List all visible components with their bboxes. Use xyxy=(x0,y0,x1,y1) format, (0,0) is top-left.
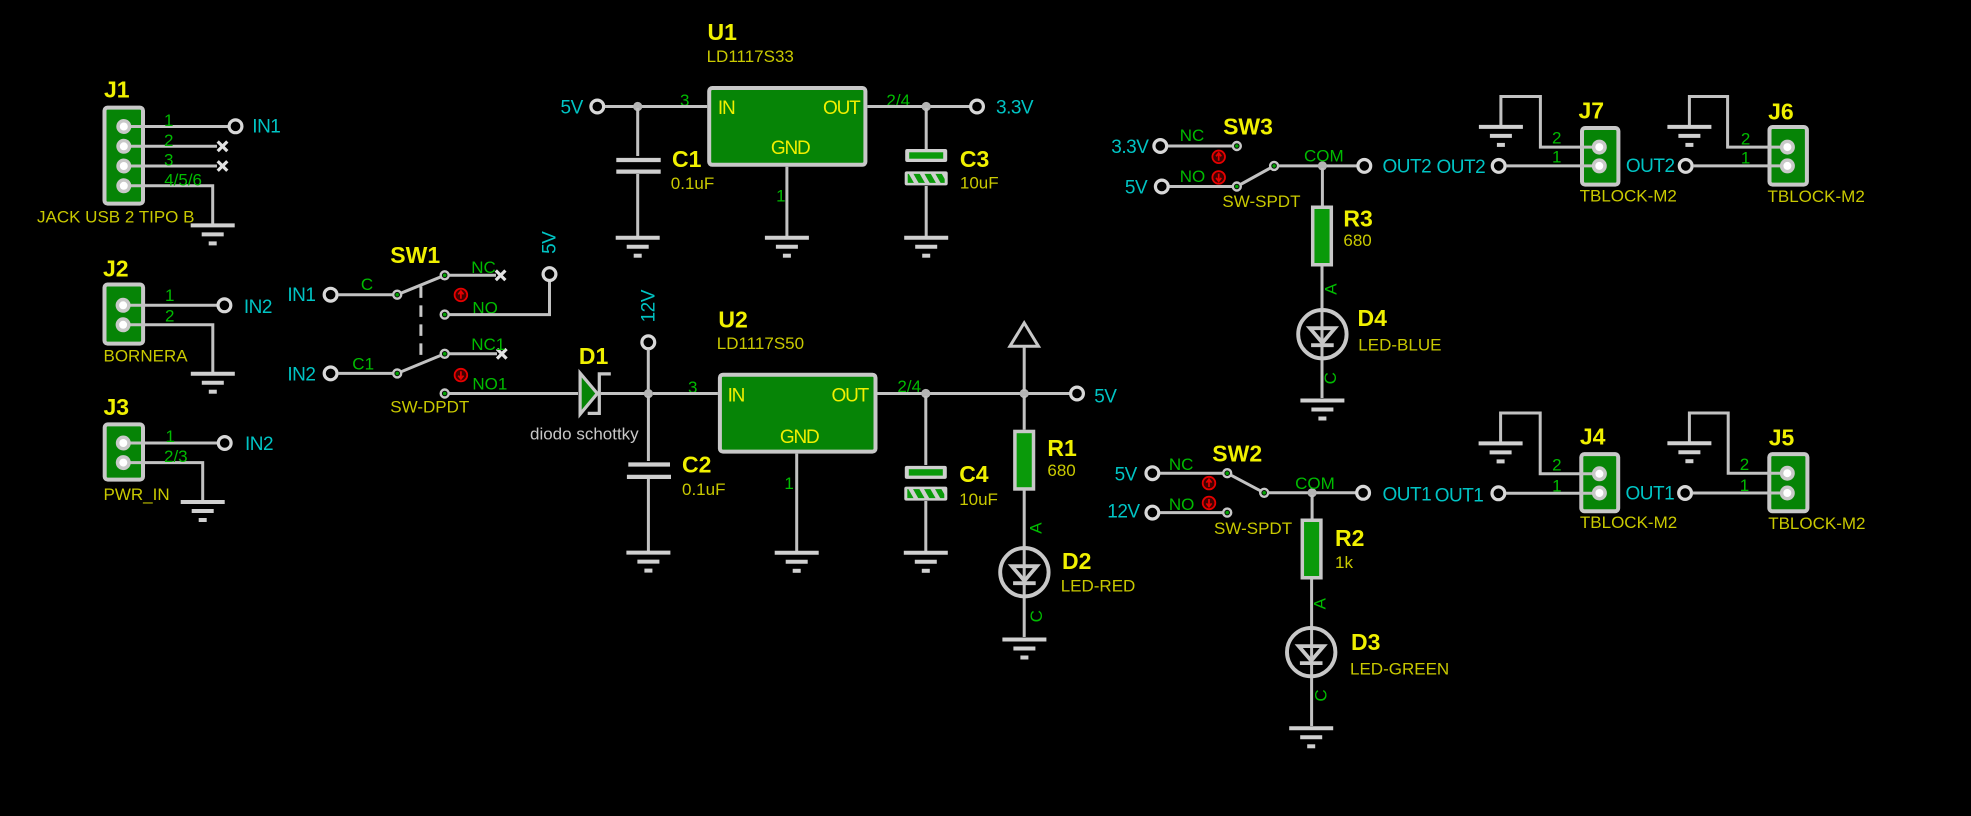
svg-text:NO1: NO1 xyxy=(472,374,507,393)
wire COM down to R3 xyxy=(1321,168,1324,206)
svg-text:SW-DPDT: SW-DPDT xyxy=(390,398,469,417)
svg-text:IN: IN xyxy=(718,98,735,119)
wire J3 pin 2/3 to ground xyxy=(123,463,202,500)
wire J1 pin 2 xyxy=(124,145,217,148)
svg-text:1: 1 xyxy=(776,186,785,205)
connector J7 body xyxy=(1582,128,1618,185)
capacitor C3 (polarised) xyxy=(905,149,947,162)
svg-text:GND: GND xyxy=(771,138,810,159)
svg-text:TBLOCK-M2: TBLOCK-M2 xyxy=(1768,514,1865,533)
wire power arrow down xyxy=(1023,346,1026,391)
svg-text:BORNERA: BORNERA xyxy=(104,347,189,366)
ground J6 xyxy=(1667,127,1711,145)
wire J7 pin 2 to ground xyxy=(1501,97,1599,148)
SW1 gang link (dashed) xyxy=(419,286,422,357)
resistor R2 xyxy=(1302,520,1321,578)
wire to C2 xyxy=(647,396,650,461)
node OUT2 terminal at J7 xyxy=(1492,160,1505,173)
wire to R1 xyxy=(1023,396,1026,430)
diode D1 (schottky) xyxy=(580,373,597,414)
svg-text:4/5/6: 4/5/6 xyxy=(164,171,202,190)
svg-text:COM: COM xyxy=(1304,147,1344,166)
svg-text:D1: D1 xyxy=(579,343,609,369)
svg-text:OUT1: OUT1 xyxy=(1435,486,1484,507)
svg-text:3.3V: 3.3V xyxy=(1111,137,1149,158)
svg-text:1: 1 xyxy=(166,427,175,446)
SW1 lever pole 1 xyxy=(397,275,445,294)
svg-text:J2: J2 xyxy=(103,255,129,281)
svg-text:IN2: IN2 xyxy=(287,365,315,386)
SW3 actuator up xyxy=(1212,151,1225,164)
svg-text:NC1: NC1 xyxy=(471,335,505,354)
svg-text:2: 2 xyxy=(1552,128,1561,147)
capacitor C1 xyxy=(616,158,660,162)
svg-text:TBLOCK-M2: TBLOCK-M2 xyxy=(1580,186,1677,205)
wire J3 pin 1 to node IN2 xyxy=(123,442,217,445)
ground J5 xyxy=(1667,443,1711,461)
svg-text:10uF: 10uF xyxy=(959,490,998,509)
svg-text:TBLOCK-M2: TBLOCK-M2 xyxy=(1768,187,1865,206)
no-connect SW1 NC xyxy=(496,271,506,281)
svg-text:NC: NC xyxy=(1169,455,1194,474)
svg-text:OUT: OUT xyxy=(832,385,870,406)
svg-text:1k: 1k xyxy=(1335,553,1353,572)
svg-text:NO: NO xyxy=(1180,167,1206,186)
wire OUT1 to J5 pin 1 xyxy=(1693,492,1788,495)
regulator U2 body xyxy=(720,375,876,452)
svg-text:C1: C1 xyxy=(352,355,374,374)
svg-text:GND: GND xyxy=(780,427,819,448)
svg-text:1: 1 xyxy=(1741,149,1750,168)
ground C4 xyxy=(904,553,948,571)
ground C3 xyxy=(904,238,948,256)
wire SW1 NC stub xyxy=(449,274,496,277)
wire OUT2 to J6 pin 1 xyxy=(1693,164,1787,167)
svg-text:C: C xyxy=(1321,372,1340,384)
svg-text:OUT2: OUT2 xyxy=(1383,157,1432,178)
svg-text:LED-BLUE: LED-BLUE xyxy=(1358,336,1441,355)
svg-text:C: C xyxy=(1312,689,1331,701)
svg-text:SW2: SW2 xyxy=(1212,441,1262,467)
wire 5V to SW2 NC xyxy=(1160,472,1223,475)
J7 pin pads xyxy=(1592,140,1607,155)
svg-text:J6: J6 xyxy=(1768,99,1794,125)
wire 3.3V to SW3 NC xyxy=(1168,145,1232,148)
wire to C1 xyxy=(636,108,639,156)
J5 pin pads xyxy=(1780,466,1795,481)
svg-text:A: A xyxy=(1311,597,1330,609)
connector J6 body xyxy=(1770,127,1807,185)
node IN2 at SW1 xyxy=(324,367,337,380)
node OUT1 terminal at J4 xyxy=(1492,487,1505,500)
wire C1 to ground xyxy=(636,174,639,236)
svg-text:IN1: IN1 xyxy=(252,117,280,138)
wire U1 OUT to node 3.3V xyxy=(867,105,969,108)
node 3.3V at SW3 xyxy=(1154,140,1167,153)
wire J1 pin 1 to node IN1 xyxy=(124,125,228,128)
junction COM at R3 xyxy=(1318,161,1327,170)
resistor R3 xyxy=(1313,207,1332,265)
node IN1 at SW1 xyxy=(324,288,337,301)
svg-text:D3: D3 xyxy=(1351,629,1380,655)
wire SW3 common to node OUT2 xyxy=(1278,164,1357,167)
svg-text:5V: 5V xyxy=(1125,178,1148,199)
SW1 actuator down xyxy=(455,369,468,382)
junction at C3 xyxy=(922,102,931,111)
svg-text:OUT: OUT xyxy=(823,98,861,119)
svg-text:5V: 5V xyxy=(1094,386,1117,407)
SW2 actuator down xyxy=(1203,497,1216,510)
svg-text:OUT2: OUT2 xyxy=(1437,157,1486,178)
svg-text:LD1117S50: LD1117S50 xyxy=(717,334,804,353)
svg-text:680: 680 xyxy=(1343,231,1371,250)
svg-text:12V: 12V xyxy=(638,289,659,322)
svg-text:J1: J1 xyxy=(104,77,130,103)
svg-text:2/3: 2/3 xyxy=(164,447,188,466)
wire R1 to D2 to ground xyxy=(1023,490,1026,637)
svg-text:C: C xyxy=(361,275,373,294)
wire J2 pin 2 to ground xyxy=(123,325,213,372)
connector J4 body xyxy=(1581,454,1618,511)
ground J3 xyxy=(181,502,225,520)
svg-text:SW-SPDT: SW-SPDT xyxy=(1222,192,1300,211)
wire R3 to D4 to ground xyxy=(1321,266,1324,398)
svg-text:LED-GREEN: LED-GREEN xyxy=(1350,660,1449,679)
node OUT2 terminal at SW3 xyxy=(1358,160,1371,173)
wire U2 GND pin to ground xyxy=(795,454,798,551)
junction at C1 xyxy=(633,102,642,111)
svg-text:IN1: IN1 xyxy=(287,285,315,306)
J6 pin pads xyxy=(1780,140,1795,155)
svg-text:5V: 5V xyxy=(540,231,561,254)
connector J1 body xyxy=(105,108,144,204)
svg-text:LD1117S33: LD1117S33 xyxy=(707,47,794,66)
svg-text:1: 1 xyxy=(1740,476,1749,495)
node OUT1 terminal at SW2 xyxy=(1357,486,1370,499)
svg-text:R3: R3 xyxy=(1343,206,1372,232)
svg-text:J5: J5 xyxy=(1769,424,1795,450)
junction U2 out at C4 xyxy=(921,389,930,398)
wire J5 pin 2 to ground xyxy=(1689,413,1787,473)
svg-text:SW-SPDT: SW-SPDT xyxy=(1214,519,1292,538)
wire 12V to SW2 NO xyxy=(1160,511,1223,514)
resistor R1 xyxy=(1015,431,1034,489)
svg-text:J7: J7 xyxy=(1579,98,1605,124)
svg-text:R1: R1 xyxy=(1047,435,1077,461)
junction 5V at R1 xyxy=(1020,389,1029,398)
svg-text:diodo schottky: diodo schottky xyxy=(530,425,639,444)
wire J1 pin 3 xyxy=(124,165,217,168)
ground D4 xyxy=(1300,401,1344,419)
wire SW1 NC1 stub xyxy=(449,352,497,355)
no-connect pin 3 xyxy=(218,161,228,171)
svg-text:A: A xyxy=(1027,522,1046,534)
svg-text:R2: R2 xyxy=(1335,525,1364,551)
svg-text:12V: 12V xyxy=(1107,502,1140,523)
LED D3 xyxy=(1287,628,1335,676)
svg-text:U1: U1 xyxy=(708,19,738,45)
SW3 lever xyxy=(1237,166,1274,187)
svg-text:SW3: SW3 xyxy=(1223,113,1273,139)
node OUT2 terminal at J6 xyxy=(1679,160,1692,173)
svg-text:2: 2 xyxy=(1552,456,1561,475)
svg-text:2: 2 xyxy=(164,131,173,150)
svg-text:C4: C4 xyxy=(959,461,989,487)
svg-text:LED-RED: LED-RED xyxy=(1061,577,1136,596)
svg-text:0.1uF: 0.1uF xyxy=(682,480,725,499)
wire 5V to SW3 NO xyxy=(1170,185,1233,188)
svg-text:J3: J3 xyxy=(104,394,130,420)
svg-text:OUT1: OUT1 xyxy=(1626,484,1675,505)
wire 12V node to U2 IN xyxy=(653,392,718,395)
node OUT1 terminal at J5 xyxy=(1679,487,1692,500)
svg-text:U2: U2 xyxy=(718,306,747,332)
wire J1 pin 4/5/6 to ground xyxy=(124,186,213,224)
svg-text:OUT1: OUT1 xyxy=(1383,484,1432,505)
svg-text:D4: D4 xyxy=(1358,305,1388,331)
regulator U1 body xyxy=(709,88,865,165)
wire SW2 common to node OUT1 xyxy=(1268,491,1356,494)
J4 pin pads xyxy=(1592,466,1607,481)
ground D2 xyxy=(1002,640,1046,658)
svg-text:3: 3 xyxy=(164,150,173,169)
ground U2 xyxy=(775,553,819,571)
J1 pin pads xyxy=(116,119,131,134)
svg-text:2: 2 xyxy=(1740,455,1749,474)
node IN2 terminal at J3 xyxy=(218,437,231,450)
svg-text:0.1uF: 0.1uF xyxy=(671,174,714,193)
svg-text:1: 1 xyxy=(165,286,174,305)
svg-text:1: 1 xyxy=(1552,477,1561,496)
J3 pin pads xyxy=(116,436,131,451)
ground J2 xyxy=(191,374,235,392)
node 5V at SW3 xyxy=(1155,180,1168,193)
svg-text:1: 1 xyxy=(784,474,793,493)
node 5V at SW2 xyxy=(1146,467,1159,480)
SW2 lever xyxy=(1227,473,1264,493)
node 12V terminal xyxy=(642,336,655,349)
svg-text:PWR_IN: PWR_IN xyxy=(104,485,170,504)
connector J2 body xyxy=(105,285,144,344)
svg-text:A: A xyxy=(1321,283,1340,295)
connector J5 body xyxy=(1769,454,1807,511)
wire 12V terminal down xyxy=(647,349,650,391)
no-connect pin 2 xyxy=(218,142,228,152)
wire 5V to U1 IN xyxy=(605,105,707,108)
svg-text:1: 1 xyxy=(164,111,173,130)
node 3.3V terminal xyxy=(971,100,984,113)
svg-text:J4: J4 xyxy=(1580,423,1606,449)
power arrow 5V xyxy=(1010,323,1039,346)
SW1 actuator up xyxy=(455,289,468,302)
LED D4 xyxy=(1298,310,1346,358)
wire U2 OUT to node 5V xyxy=(878,392,1071,395)
node IN1 terminal xyxy=(229,120,242,133)
wire SW1 NO to node 5V xyxy=(449,282,550,315)
svg-text:IN: IN xyxy=(728,385,745,406)
ground D3 xyxy=(1289,728,1333,746)
svg-text:5V: 5V xyxy=(1115,465,1138,486)
wire J6 pin 2 to ground xyxy=(1689,97,1787,148)
svg-text:COM: COM xyxy=(1295,474,1335,493)
node IN2 terminal xyxy=(218,299,231,312)
wire to C3 xyxy=(925,108,928,149)
svg-text:NC: NC xyxy=(471,258,496,277)
svg-text:680: 680 xyxy=(1047,461,1075,480)
wire D1 cathode to 12V node xyxy=(601,392,645,395)
junction COM at R2 xyxy=(1308,488,1317,497)
no-connect SW1 NC1 xyxy=(497,349,507,359)
node 5V terminal at U2 xyxy=(1071,387,1084,400)
wire OUT2 to J7 pin 1 xyxy=(1506,164,1599,167)
svg-text:C3: C3 xyxy=(960,146,989,172)
wire COM down to R2 xyxy=(1311,495,1314,519)
svg-text:C: C xyxy=(1027,610,1046,622)
ground C2 xyxy=(626,553,670,571)
svg-text:3.3V: 3.3V xyxy=(996,98,1034,119)
LED D2 xyxy=(1000,548,1048,596)
svg-text:2: 2 xyxy=(165,307,174,326)
wire C3 to ground xyxy=(925,186,928,236)
wire to C4 xyxy=(924,396,927,465)
wire IN2 to SW1 pole C1 xyxy=(338,372,394,375)
svg-text:2: 2 xyxy=(1741,129,1750,148)
connector J3 body xyxy=(105,424,143,479)
wire IN1 to SW1 pole C xyxy=(338,293,394,296)
wire U1 GND pin to ground xyxy=(785,167,788,236)
SW1 lever pole 2 xyxy=(397,354,445,374)
svg-text:D2: D2 xyxy=(1062,548,1091,574)
wire C2 to ground xyxy=(647,479,650,551)
svg-text:IN2: IN2 xyxy=(244,297,272,318)
svg-text:C2: C2 xyxy=(682,452,711,478)
J2 pin pads xyxy=(116,298,131,313)
ground U1 xyxy=(765,238,809,256)
wire C4 to ground xyxy=(924,501,927,551)
svg-text:TBLOCK-M2: TBLOCK-M2 xyxy=(1580,513,1677,532)
svg-text:10uF: 10uF xyxy=(960,173,999,192)
svg-text:C1: C1 xyxy=(672,146,702,172)
ground C1 xyxy=(616,238,660,256)
ground J7 xyxy=(1479,127,1523,145)
wire SW1 NO1 to D1 anode xyxy=(449,392,578,395)
svg-text:NC: NC xyxy=(1180,126,1205,145)
svg-text:JACK USB 2 TIPO B: JACK USB 2 TIPO B xyxy=(37,207,194,226)
ground J4 xyxy=(1479,443,1523,461)
node 5V terminal at U1 xyxy=(591,100,604,113)
wire R2 to D3 to ground xyxy=(1310,579,1313,726)
node 12V at SW2 xyxy=(1146,506,1159,519)
SW3 actuator down xyxy=(1212,171,1225,184)
svg-text:IN2: IN2 xyxy=(245,434,273,455)
wire J4 pin 2 to ground xyxy=(1501,413,1600,474)
wire OUT1 to J4 pin 1 xyxy=(1506,492,1599,495)
junction 12V node xyxy=(644,389,653,398)
svg-text:1: 1 xyxy=(1552,148,1561,167)
svg-text:SW1: SW1 xyxy=(390,242,440,268)
svg-text:5V: 5V xyxy=(561,98,584,119)
capacitor C4 (polarised) xyxy=(905,466,947,479)
ground J1 xyxy=(191,225,235,243)
wire J2 pin 1 to node IN2 xyxy=(123,304,217,307)
node 5V terminal at SW1 xyxy=(543,268,556,281)
svg-text:OUT2: OUT2 xyxy=(1626,156,1675,177)
SW2 actuator up xyxy=(1203,477,1216,490)
capacitor C2 xyxy=(628,462,670,466)
